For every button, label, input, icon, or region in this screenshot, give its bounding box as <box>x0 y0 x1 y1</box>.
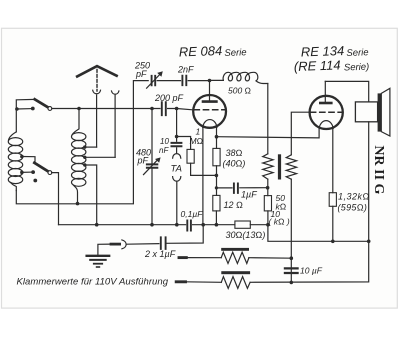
label 1uF <box>241 190 257 200</box>
junction dot filament/38R <box>215 135 219 139</box>
wire jack1 to L2 tap <box>96 95 98 147</box>
spare contact dot S2 <box>33 179 37 183</box>
resistor 1,32kOhm <box>329 193 336 207</box>
switch S2 alternate contact stub <box>22 171 33 173</box>
antenna jack 2 <box>112 91 119 94</box>
plate wire to speaker <box>325 81 368 102</box>
junction dot L2 top <box>77 107 81 111</box>
tube RE084 envelope <box>193 95 226 128</box>
filament lead left to bottom bus <box>202 127 204 225</box>
wire L1 top to switch S1 <box>16 99 34 131</box>
L2 tap to ground bus <box>85 165 97 225</box>
svg-text:10 µF: 10 µF <box>300 266 323 276</box>
speaker return wire <box>250 122 369 282</box>
label 1 MOhm <box>190 127 204 147</box>
svg-text:(595Ω): (595Ω) <box>338 203 368 213</box>
ground symbol <box>87 256 110 267</box>
capacitor 2x1uF <box>161 237 166 249</box>
svg-text:12 Ω: 12 Ω <box>224 200 244 210</box>
junction dot plate node <box>208 79 212 83</box>
capacitor 480pF (variable) branch wire <box>151 109 153 225</box>
label 250 pF <box>134 61 150 80</box>
transformer Tr1 core <box>278 154 281 179</box>
label (10 kOhm) <box>269 209 290 227</box>
heater winding upper <box>221 252 249 263</box>
label 10 nF <box>159 137 169 155</box>
label 12 Ohm <box>224 200 244 210</box>
label 50 kOhm <box>276 193 287 212</box>
svg-text:200 pF: 200 pF <box>154 93 184 103</box>
svg-text:TA: TA <box>171 164 182 175</box>
svg-text:(40Ω): (40Ω) <box>223 159 246 169</box>
label 500 Ohm <box>228 86 252 96</box>
plug jack <box>111 240 126 249</box>
tube RE134 plate <box>320 81 331 103</box>
wire coil bottoms <box>16 81 148 204</box>
label (RE 114 Serie) <box>294 57 370 74</box>
junction dot L2 tap bus <box>95 223 99 227</box>
junction dot TA bus <box>175 223 179 227</box>
svg-text:pF: pF <box>137 156 149 166</box>
svg-text:1µF: 1µF <box>241 190 257 200</box>
switch S1 contact circle <box>48 107 52 111</box>
junction dot filament bus <box>175 135 179 139</box>
svg-text:10: 10 <box>160 137 169 146</box>
tube RE134 envelope <box>310 96 343 129</box>
junction dot 50k bus <box>266 223 270 227</box>
svg-text:NR II G: NR II G <box>371 145 386 194</box>
choke 500 Ohm <box>210 72 268 83</box>
wire 2x1uF to plug <box>127 243 159 246</box>
L2 tap to jack2 <box>85 156 116 158</box>
label 10uF <box>300 266 323 276</box>
wire terminal to winding <box>186 257 291 260</box>
contact dot S1 stub right <box>31 107 35 111</box>
tube RE134 filament <box>319 121 333 129</box>
antenna lead (dashed) <box>96 70 98 92</box>
junction dot 10nF branch <box>175 107 179 111</box>
label RE 084 Serie <box>179 43 247 60</box>
antenna jack 1 <box>93 90 101 94</box>
bottom bus wire <box>59 225 369 242</box>
switch S2 blade <box>34 163 48 172</box>
junction dot 12R bus <box>215 223 219 227</box>
resistor 30 Ohm <box>235 221 250 228</box>
switch S1 alternate contact stub <box>17 108 33 110</box>
svg-text:1: 1 <box>196 127 201 137</box>
filament lead right <box>216 127 218 148</box>
transformer Tr1 primary winding <box>263 154 273 179</box>
svg-text:pF: pF <box>135 69 147 79</box>
capacitor 10nF <box>172 143 182 146</box>
junction dot 1M/38R <box>215 174 219 178</box>
junction dot 480pF branch <box>150 107 154 111</box>
TA jack upper half <box>173 154 181 159</box>
transformer Tr1 secondary winding <box>286 155 296 179</box>
loudspeaker NR II G <box>355 88 390 136</box>
ground branch wire <box>167 225 204 244</box>
tube RE084 grid (dashed) <box>194 109 225 111</box>
transformer primary lead from choke <box>267 84 269 154</box>
L1 tap wire to switch S2 <box>22 157 35 163</box>
tube RE134 grid (dashed) <box>311 111 342 113</box>
label 1,32kOhm <box>338 192 370 213</box>
arrow 480pF <box>144 157 161 174</box>
label 480 pF <box>136 148 151 166</box>
svg-text:Serie): Serie) <box>344 62 370 74</box>
junction dot 480pF bus <box>150 223 154 227</box>
svg-text:Serie: Serie <box>224 47 247 59</box>
wire 2nF to plate node <box>188 80 209 82</box>
svg-text:(RE 114: (RE 114 <box>294 57 341 74</box>
tap dot L1 lower <box>20 171 24 175</box>
heater winding lower <box>221 277 250 289</box>
svg-text:38Ω: 38Ω <box>226 148 243 158</box>
capacitor 1uF <box>216 184 267 193</box>
filament supply bus to RE134 <box>217 128 320 138</box>
label 200 pF <box>154 93 184 103</box>
svg-text:2 x 1µF: 2 x 1µF <box>144 249 176 259</box>
junction dot S1 stub left <box>15 107 19 111</box>
tap dot L1 upper <box>20 155 24 159</box>
switch S1 blade <box>35 99 48 107</box>
resistor 50 kOhm <box>264 196 271 211</box>
coil L2 <box>72 109 86 204</box>
primary bottom lead <box>267 179 269 195</box>
resistor 38 Ohm <box>213 148 220 165</box>
label RE 134 Serie <box>301 43 369 60</box>
capacitor 480pF plates <box>147 164 157 167</box>
tap dot <box>83 163 86 166</box>
coil L1 <box>8 132 22 191</box>
svg-text:MΩ: MΩ <box>190 136 204 146</box>
branch 10nF / TA <box>176 109 178 225</box>
heater winding upper core <box>221 248 249 251</box>
svg-text:nF: nF <box>159 146 169 155</box>
wire 12R to bus <box>215 211 217 225</box>
L2 tap to jack1 <box>85 146 97 148</box>
junction dot 10uF top <box>290 256 294 260</box>
label 2nF <box>177 65 194 75</box>
antenna <box>77 66 116 76</box>
svg-text:( kΩ ): ( kΩ ) <box>269 217 290 227</box>
tap dot <box>83 156 86 159</box>
capacitor 2nF <box>182 76 186 86</box>
tube RE084 filament <box>203 120 217 128</box>
capacitor 0,1uF <box>187 221 191 231</box>
svg-text:Serie: Serie <box>346 47 369 59</box>
heater winding lower core <box>221 271 250 274</box>
wire 1,32k to B+ bus <box>332 206 334 241</box>
svg-text:Klammerwerte für 110V Ausführu: Klammerwerte für 110V Ausführung <box>17 277 169 288</box>
mains terminal lower <box>176 280 185 283</box>
wire jack2 to L2 tap <box>114 95 116 157</box>
wire S2 to bottom bus <box>52 173 59 225</box>
svg-text:30Ω(13Ω): 30Ω(13Ω) <box>226 230 266 240</box>
capacitor 10uF <box>285 268 298 273</box>
tap dot <box>83 145 86 148</box>
tube RE084 plate <box>203 81 216 102</box>
caption Klammerwerte <box>17 277 169 288</box>
junction dot 10uF bottom <box>290 281 294 285</box>
TA jack lower half <box>173 177 181 182</box>
svg-text:1,32kΩ: 1,32kΩ <box>338 192 370 202</box>
label 38 Ohm <box>223 148 246 169</box>
svg-text:2nF: 2nF <box>177 65 194 75</box>
junction dot 1,32k bus <box>331 240 335 244</box>
label NR II G (rotated) <box>371 145 386 194</box>
secondary top lead to RE134 grid <box>291 112 310 155</box>
label TA <box>171 164 182 175</box>
label 2 x 1uF <box>144 249 176 259</box>
capacitor 200pF <box>162 102 166 115</box>
secondary bottom lead to 10uF node <box>290 179 292 282</box>
junction dot 1uF / primary <box>266 186 270 190</box>
junction dot speaker/B+ <box>367 240 371 244</box>
wire 250pF to 2nF <box>157 80 180 82</box>
mains terminal upper <box>179 256 186 259</box>
junction dot L2 bottom <box>76 202 80 206</box>
junction dot ground branch <box>201 223 205 227</box>
svg-text:500 Ω: 500 Ω <box>228 86 252 96</box>
resistor 12 Ohm <box>213 195 220 211</box>
capacitor 250pF (variable) <box>147 71 163 88</box>
contact dot S2 stub <box>31 170 35 174</box>
filament right lead to 1,32k <box>332 128 334 192</box>
main grid bus wire <box>52 109 194 110</box>
wire 50k to bus <box>267 211 269 225</box>
label 30 Ohm <box>226 230 266 240</box>
svg-text:RE 084: RE 084 <box>179 43 223 60</box>
svg-text:0,1µF: 0,1µF <box>181 209 204 219</box>
label 0,1uF <box>181 209 204 219</box>
wire terminal to winding lower <box>186 281 222 284</box>
resistor 1 MOhm <box>177 137 217 176</box>
junction dot 1uF tap <box>215 186 218 189</box>
wire 38R to 12R <box>216 166 218 196</box>
switch S2 contact circle <box>48 171 52 175</box>
ground wire <box>98 244 111 256</box>
